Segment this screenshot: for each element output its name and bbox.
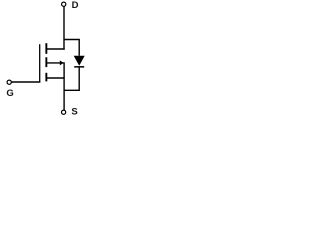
wire: branch from drain wire to diode column <box>64 40 79 56</box>
wire: D terminal down to drain corner <box>63 6 65 49</box>
svg-text:S: S <box>71 107 77 118</box>
terminal G <box>7 80 11 84</box>
transistor Q1: channel bar middle (body) <box>45 57 47 67</box>
arrowhead on body lead (points right) <box>60 60 64 65</box>
terminal S <box>62 110 66 114</box>
wire: G terminal to gate line <box>12 81 41 83</box>
svg-text:D: D <box>72 0 79 11</box>
svg-text:G: G <box>6 88 13 99</box>
wire: diode cathode down and left to source wire <box>64 67 79 90</box>
terminal D <box>62 2 66 6</box>
transistor Q1: channel bar top (drain) <box>45 43 47 54</box>
diode D1: cathode bar <box>74 66 84 68</box>
diode D1: body diode triangle (anode, pointing down) <box>74 56 85 66</box>
transistor Q1: channel bar bottom (source) <box>45 73 47 82</box>
wire: body lead with corner down to source node <box>46 63 64 78</box>
wire: source stub (bottom bar to source node) <box>46 77 64 79</box>
wire: drain stub (top bar to drain wire) <box>46 48 64 50</box>
transistor Q1: gate vertical line <box>39 44 41 82</box>
wire: source node down to S terminal <box>63 77 65 110</box>
